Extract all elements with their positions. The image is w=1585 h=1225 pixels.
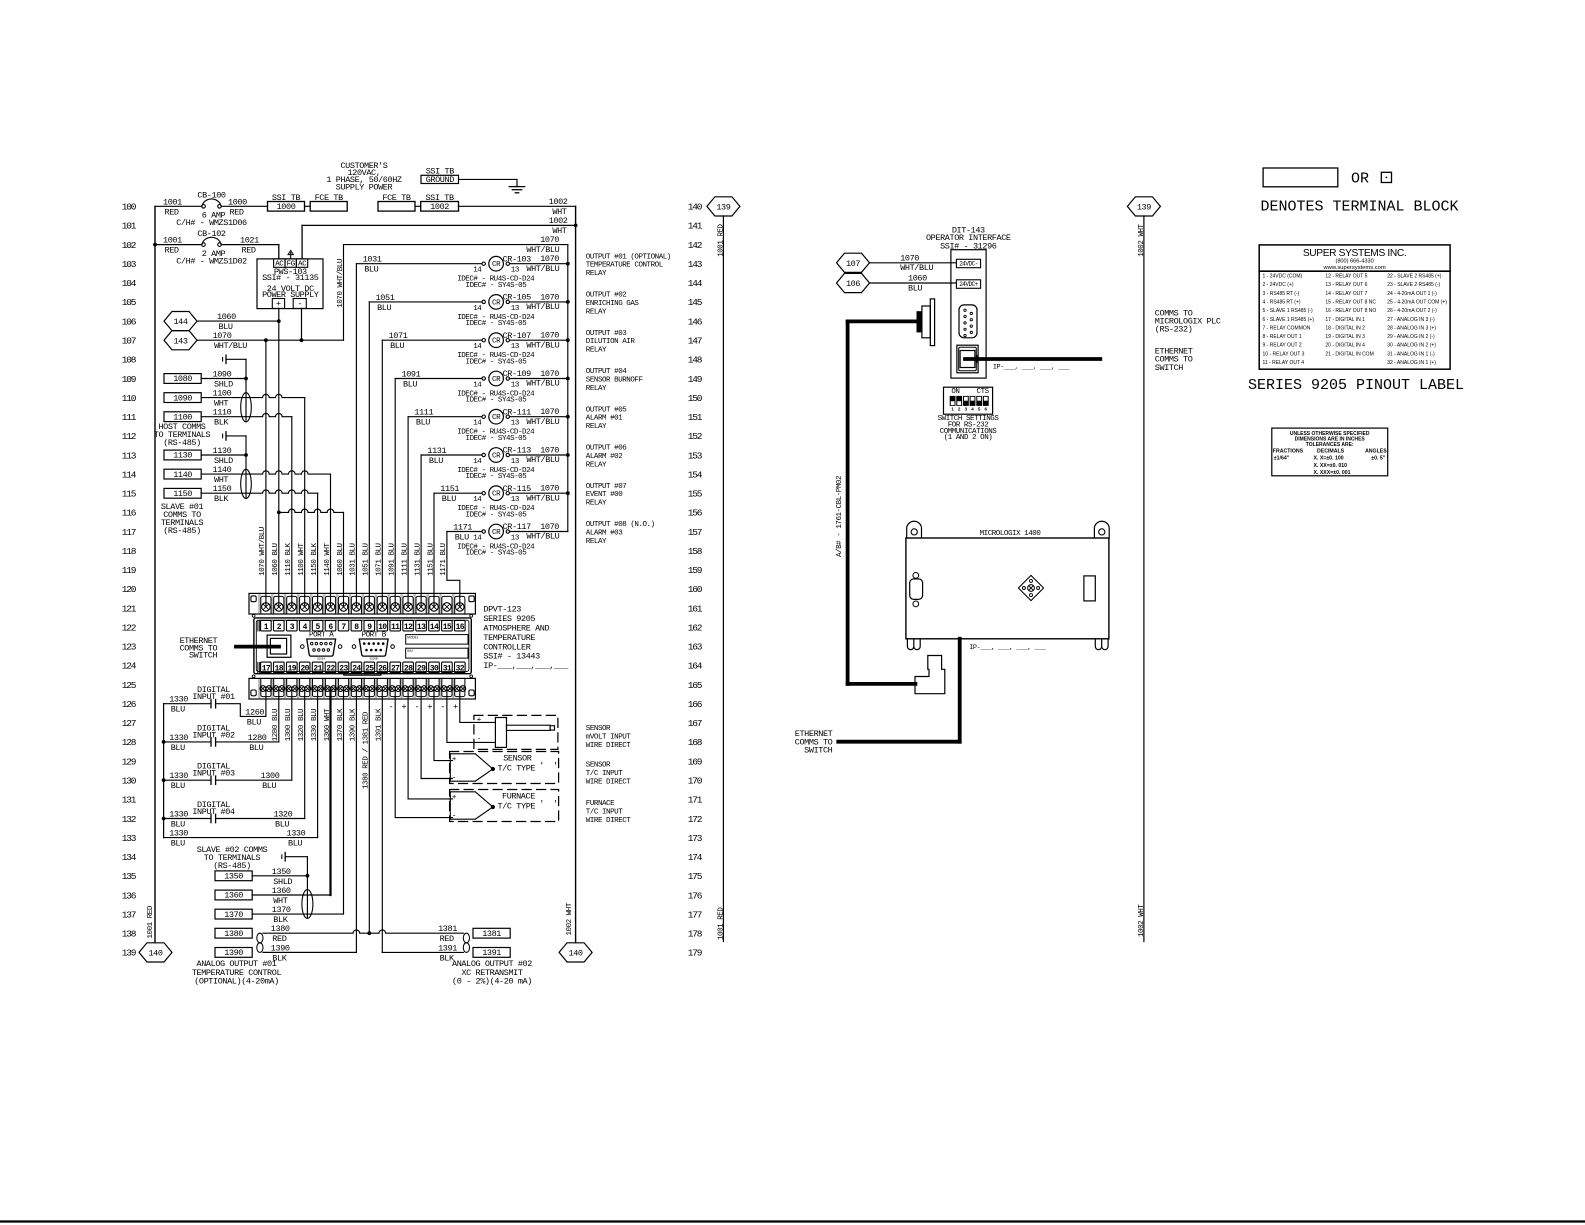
terminal 1150 box bbox=[164, 488, 201, 498]
svg-text:IP-___, ___, ___, ___: IP-___, ___, ___, ___ bbox=[993, 363, 1071, 371]
svg-text:1330 BLU: 1330 BLU bbox=[311, 709, 319, 741]
svg-text:CR: CR bbox=[492, 261, 501, 269]
svg-text:13: 13 bbox=[511, 535, 520, 543]
svg-text:149: 149 bbox=[688, 374, 703, 385]
svg-text:(1 AND 2 ON): (1 AND 2 ON) bbox=[944, 434, 993, 442]
svg-text:1300: 1300 bbox=[261, 771, 280, 781]
svg-text:1070: 1070 bbox=[540, 407, 559, 417]
ethernet comms wire into controller bbox=[236, 645, 279, 649]
wire drop to terminal 13 bbox=[420, 455, 422, 607]
svg-text:EVENT #00: EVENT #00 bbox=[586, 491, 623, 499]
node tag 106 bbox=[837, 273, 870, 292]
svg-text:178: 178 bbox=[688, 929, 703, 940]
svg-text:DILUTION AIR: DILUTION AIR bbox=[586, 338, 636, 346]
svg-text:IDEC# - SY4S-05: IDEC# - SY4S-05 bbox=[466, 397, 528, 405]
svg-text:WHT/BLU: WHT/BLU bbox=[526, 264, 559, 274]
svg-text:28 - ANALOG IN 3 (+): 28 - ANALOG IN 3 (+) bbox=[1387, 325, 1436, 331]
svg-text:166: 166 bbox=[688, 699, 703, 710]
wire drop to terminal 14 bbox=[433, 493, 435, 607]
left power rail 1001 RED bbox=[154, 206, 156, 942]
svg-text:27: 27 bbox=[391, 665, 400, 674]
svg-text:1111 BLU: 1111 BLU bbox=[401, 543, 409, 575]
svg-text:18 - DIGITAL IN 2: 18 - DIGITAL IN 2 bbox=[1325, 325, 1365, 331]
svg-text:1320: 1320 bbox=[274, 810, 293, 820]
svg-text:1060: 1060 bbox=[217, 312, 236, 322]
svg-text:22 - SLAVE 2 RS485 (+): 22 - SLAVE 2 RS485 (+) bbox=[1387, 274, 1442, 280]
svg-text:SWITCH: SWITCH bbox=[1155, 363, 1184, 373]
svg-text:12: 12 bbox=[404, 623, 413, 632]
svg-text:CR-107: CR-107 bbox=[503, 331, 532, 341]
svg-text:14: 14 bbox=[473, 420, 482, 428]
svg-text:': ' bbox=[539, 761, 544, 771]
svg-text:-: - bbox=[414, 702, 419, 712]
svg-text:1070: 1070 bbox=[540, 445, 559, 455]
wire terminal 30 to sensor tc + bbox=[434, 689, 452, 761]
svg-text:INPUT #02: INPUT #02 bbox=[192, 730, 235, 740]
terminal 1350 box bbox=[215, 871, 252, 881]
svg-text:1150 BLK: 1150 BLK bbox=[311, 542, 319, 575]
svg-text:21 - DIGITAL IN COM: 21 - DIGITAL IN COM bbox=[1325, 351, 1373, 357]
svg-text:150: 150 bbox=[688, 393, 703, 404]
svg-text:22: 22 bbox=[326, 665, 335, 674]
svg-text:1070 WHT/BLU: 1070 WHT/BLU bbox=[337, 259, 345, 308]
svg-text:132: 132 bbox=[122, 814, 137, 825]
svg-text:133: 133 bbox=[122, 833, 137, 844]
svg-text:1001 RED: 1001 RED bbox=[147, 905, 155, 938]
right power rail 1002 WHT bbox=[575, 206, 577, 942]
svg-text:T/C TYPE: T/C TYPE bbox=[498, 802, 536, 812]
terminal 1391 box bbox=[473, 948, 510, 958]
svg-text:13: 13 bbox=[511, 382, 520, 390]
svg-text:1091 BLU: 1091 BLU bbox=[389, 543, 397, 575]
svg-text:107: 107 bbox=[846, 259, 860, 269]
svg-text:+: + bbox=[276, 299, 281, 309]
svg-text:1002 WHT: 1002 WHT bbox=[1138, 223, 1146, 256]
svg-text:11 - RELAY OUT 4: 11 - RELAY OUT 4 bbox=[1263, 360, 1305, 366]
svg-text:(RS-485): (RS-485) bbox=[163, 438, 201, 448]
wire 1140 WHT to terminal 6 bbox=[201, 471, 330, 474]
svg-text:RELAY: RELAY bbox=[586, 423, 607, 431]
svg-text:1171: 1171 bbox=[453, 523, 472, 533]
svg-text:129: 129 bbox=[122, 756, 137, 767]
svg-text:OUTPUT #04: OUTPUT #04 bbox=[586, 368, 627, 376]
svg-text:BLU: BLU bbox=[262, 781, 276, 791]
svg-text:1390: 1390 bbox=[224, 948, 243, 958]
svg-text:14: 14 bbox=[473, 535, 482, 543]
wire 1021 RED bbox=[221, 244, 278, 246]
svg-text:': ' bbox=[539, 799, 544, 809]
svg-text:141: 141 bbox=[688, 221, 703, 232]
svg-text:OUTPUT #07: OUTPUT #07 bbox=[586, 483, 627, 491]
svg-text:20: 20 bbox=[300, 665, 309, 674]
OI RJ45 ethernet jack bbox=[957, 345, 978, 373]
svg-text:170: 170 bbox=[688, 776, 703, 787]
svg-text:101: 101 bbox=[122, 221, 137, 232]
svg-text:1391: 1391 bbox=[482, 948, 501, 958]
svg-text:SENSOR: SENSOR bbox=[586, 762, 611, 770]
svg-text:10: 10 bbox=[378, 623, 387, 632]
svg-text:29 - ANALOG IN 2 (-): 29 - ANALOG IN 2 (-) bbox=[1387, 334, 1435, 340]
cable ellipse slave 2 bbox=[302, 890, 313, 919]
controller 9205 main body bbox=[254, 618, 471, 674]
sensor mV probe (dashed enclosure) bbox=[474, 715, 558, 749]
svg-text:OUTPUT #02: OUTPUT #02 bbox=[586, 292, 627, 300]
svg-text:-: - bbox=[440, 702, 445, 712]
wire 1381 RED from terminal 25 junction bbox=[369, 930, 463, 933]
svg-text:OUTPUT #06: OUTPUT #06 bbox=[586, 445, 627, 453]
svg-text:CR-105: CR-105 bbox=[503, 293, 532, 303]
svg-text:156: 156 bbox=[688, 508, 703, 519]
svg-text:1001 RED: 1001 RED bbox=[718, 223, 726, 256]
wire PWS - to 1070 node bbox=[301, 308, 303, 340]
svg-text:1100: 1100 bbox=[173, 412, 192, 422]
svg-text:116: 116 bbox=[122, 508, 137, 519]
terminal 1090 box bbox=[164, 393, 201, 403]
wire 1391 BLK to terminal 26 bbox=[263, 951, 356, 953]
1070 WHT/BLU relay feed line bbox=[344, 244, 568, 246]
svg-text:30: 30 bbox=[430, 665, 439, 674]
svg-text:6: 6 bbox=[985, 407, 988, 412]
wire 1090 SHLD bbox=[201, 378, 246, 380]
svg-text:146: 146 bbox=[688, 316, 703, 327]
svg-text:T/C TYPE: T/C TYPE bbox=[498, 763, 536, 773]
relay coil CR-109 rung bbox=[395, 378, 482, 380]
wire 1070 down to terminal 1 bbox=[265, 340, 267, 607]
svg-text:12 - RELAY OUT 5: 12 - RELAY OUT 5 bbox=[1325, 274, 1367, 280]
terminal number row 17-32 bbox=[257, 662, 259, 672]
svg-text:1002 WHT: 1002 WHT bbox=[566, 902, 574, 935]
svg-text:164: 164 bbox=[688, 661, 703, 672]
svg-text:BLU: BLU bbox=[249, 743, 263, 753]
svg-text:167: 167 bbox=[688, 718, 702, 729]
svg-text:BLU: BLU bbox=[247, 717, 261, 727]
svg-text:OUTPUT #08 (N.O.): OUTPUT #08 (N.O.) bbox=[586, 521, 655, 529]
svg-text:BLU: BLU bbox=[416, 418, 430, 428]
svg-text:152: 152 bbox=[688, 431, 703, 442]
svg-text:140: 140 bbox=[569, 949, 583, 959]
svg-text:2: 2 bbox=[958, 407, 961, 412]
svg-text:151: 151 bbox=[688, 412, 703, 423]
svg-text:24VDC-: 24VDC- bbox=[959, 260, 978, 267]
svg-text:1001 RED: 1001 RED bbox=[718, 907, 726, 940]
svg-text:BLU: BLU bbox=[908, 283, 922, 293]
svg-text:117: 117 bbox=[122, 527, 136, 538]
svg-text:162: 162 bbox=[688, 623, 703, 634]
svg-text:24VDC+: 24VDC+ bbox=[959, 281, 979, 288]
wire 1380 RED to terminal 25 bbox=[263, 930, 369, 933]
svg-text:WHT/BLU: WHT/BLU bbox=[526, 455, 559, 465]
svg-text:1110 BLK: 1110 BLK bbox=[285, 542, 293, 575]
svg-text:-: - bbox=[389, 702, 394, 712]
terminal 1080 box bbox=[164, 374, 201, 384]
svg-text:1380: 1380 bbox=[224, 929, 243, 939]
svg-text:IDEC# - SY4S-05: IDEC# - SY4S-05 bbox=[466, 358, 528, 366]
cable ellipse host comms bbox=[241, 393, 252, 422]
svg-text:1071: 1071 bbox=[389, 331, 408, 341]
svg-text:143: 143 bbox=[688, 259, 703, 270]
svg-text:26: 26 bbox=[378, 665, 387, 674]
svg-text:ALARM #01: ALARM #01 bbox=[586, 415, 623, 423]
svg-text:CR-103: CR-103 bbox=[503, 254, 532, 264]
svg-text:IDEC# - SY4S-05: IDEC# - SY4S-05 bbox=[466, 550, 528, 558]
svg-text:114: 114 bbox=[122, 469, 137, 480]
svg-text:1171 BLU: 1171 BLU bbox=[440, 543, 448, 575]
PLC feet bbox=[907, 639, 920, 650]
svg-text:176: 176 bbox=[688, 890, 703, 901]
svg-text:1280 BLU: 1280 BLU bbox=[272, 709, 280, 741]
svg-text:IP-___,___,___,___: IP-___,___,___,___ bbox=[483, 661, 569, 671]
wire 1060 BLU row 106 bbox=[197, 320, 279, 322]
svg-text:158: 158 bbox=[688, 546, 703, 557]
svg-text:145: 145 bbox=[688, 297, 703, 308]
svg-text:1002: 1002 bbox=[549, 216, 568, 226]
svg-text:SENSOR BURNOFF: SENSOR BURNOFF bbox=[586, 377, 643, 385]
svg-text:7 - RELAY COMMON: 7 - RELAY COMMON bbox=[1263, 325, 1311, 331]
svg-text:122: 122 bbox=[122, 623, 137, 634]
svg-text:100: 100 bbox=[122, 202, 137, 213]
terminal 1380 box bbox=[215, 928, 252, 938]
svg-text:WHT/BLU: WHT/BLU bbox=[526, 493, 559, 503]
svg-text:32: 32 bbox=[456, 665, 465, 674]
svg-text:1370: 1370 bbox=[224, 910, 243, 920]
wire 1330 BLU to terminal 21 bbox=[164, 837, 318, 839]
svg-text:RELAY: RELAY bbox=[586, 500, 607, 508]
svg-text:14: 14 bbox=[473, 267, 482, 275]
1060 jumper row 116 to terminal 7 bbox=[277, 511, 281, 515]
svg-text:BLU: BLU bbox=[171, 781, 185, 791]
cable ellipse slave comms bbox=[241, 469, 252, 498]
svg-text:INPUT #01: INPUT #01 bbox=[192, 692, 235, 702]
RS-232 plug into OI bbox=[917, 311, 922, 332]
svg-text:S/N: S/N bbox=[407, 649, 413, 653]
svg-text:SENSOR: SENSOR bbox=[586, 725, 611, 733]
terminal number row 1-16 bbox=[257, 621, 259, 631]
svg-text:1051: 1051 bbox=[376, 293, 395, 303]
svg-text:(OPTIONAL)(4-20mA): (OPTIONAL)(4-20mA) bbox=[194, 977, 279, 987]
svg-text:MODEL: MODEL bbox=[407, 636, 419, 640]
svg-text:BLU: BLU bbox=[171, 705, 185, 715]
svg-text:CR: CR bbox=[492, 491, 501, 499]
svg-text:BLU: BLU bbox=[429, 456, 443, 466]
svg-text:WHT/BLU: WHT/BLU bbox=[526, 340, 559, 350]
svg-text:DENOTES TERMINAL BLOCK: DENOTES TERMINAL BLOCK bbox=[1261, 198, 1459, 215]
svg-text:BLU: BLU bbox=[442, 494, 456, 504]
svg-text:106: 106 bbox=[846, 279, 860, 289]
wire terminal 32 to probe + bbox=[460, 689, 496, 723]
svg-text:15 - RELAY OUT 8 NC: 15 - RELAY OUT 8 NC bbox=[1325, 300, 1376, 306]
svg-text:1110: 1110 bbox=[213, 408, 232, 418]
svg-text:1: 1 bbox=[951, 407, 954, 412]
shield drain symbol row 134 bbox=[281, 855, 283, 859]
node tag 139 bbox=[707, 197, 740, 216]
wire terminal 31 to probe - bbox=[447, 689, 496, 743]
svg-text:104: 104 bbox=[122, 278, 137, 289]
svg-text:139: 139 bbox=[1137, 203, 1151, 213]
svg-text:6 - SLAVE 1 RS485 (+): 6 - SLAVE 1 RS485 (+) bbox=[1263, 317, 1315, 323]
wire 1070 WHT/BLU row 107 bbox=[197, 339, 344, 341]
svg-text:31 - ANALOG IN 1 (-): 31 - ANALOG IN 1 (-) bbox=[1387, 351, 1435, 357]
svg-text:125: 125 bbox=[122, 680, 137, 691]
svg-text:MICROLOGIX 1400: MICROLOGIX 1400 bbox=[980, 530, 1042, 538]
wire 1002 WHT row 101 (from PWS AC) bbox=[302, 224, 575, 226]
svg-text:1070 WHT/BLU: 1070 WHT/BLU bbox=[259, 527, 267, 576]
svg-text:143: 143 bbox=[173, 336, 187, 346]
svg-text:X. XX=±0. 010: X. XX=±0. 010 bbox=[1314, 463, 1348, 469]
svg-text:1060: 1060 bbox=[908, 274, 927, 284]
svg-text:3: 3 bbox=[965, 407, 968, 412]
svg-text:RELAY: RELAY bbox=[586, 461, 607, 469]
svg-text:110: 110 bbox=[122, 393, 137, 404]
svg-text:SUPPLY POWER: SUPPLY POWER bbox=[336, 182, 393, 192]
svg-text:10 - RELAY OUT 3: 10 - RELAY OUT 3 bbox=[1263, 351, 1305, 357]
svg-text:1021: 1021 bbox=[240, 236, 259, 246]
controller 9205 top terminal strip bbox=[249, 593, 475, 614]
svg-text:BLU: BLU bbox=[377, 303, 391, 313]
terminal 1140 box bbox=[164, 469, 201, 479]
node tag 140 bbox=[139, 943, 172, 962]
svg-text:TOLERANCES ARE:: TOLERANCES ARE: bbox=[1306, 442, 1354, 448]
svg-text:24: 24 bbox=[352, 665, 361, 674]
svg-text:1070: 1070 bbox=[540, 522, 559, 532]
svg-text:118: 118 bbox=[122, 546, 137, 557]
wire drop to terminal 11 bbox=[394, 379, 396, 607]
svg-text:1100 WHT: 1100 WHT bbox=[298, 542, 306, 575]
relay coil CR-105 rung bbox=[369, 301, 482, 303]
svg-text:121: 121 bbox=[122, 603, 137, 614]
svg-text:165: 165 bbox=[688, 680, 703, 691]
svg-text:17: 17 bbox=[262, 665, 271, 674]
svg-text:BLK: BLK bbox=[214, 494, 229, 504]
PLC DB9 bbox=[910, 579, 923, 600]
svg-text:127: 127 bbox=[122, 718, 136, 729]
svg-text:FURNACE: FURNACE bbox=[502, 792, 535, 802]
svg-text:15: 15 bbox=[443, 623, 452, 632]
svg-text:1151: 1151 bbox=[440, 484, 459, 494]
svg-text:138: 138 bbox=[122, 929, 137, 940]
svg-text:1280: 1280 bbox=[248, 733, 267, 743]
svg-text:GROUND: GROUND bbox=[426, 175, 455, 185]
svg-text:CR: CR bbox=[492, 414, 501, 422]
svg-text:POWER SUPPLY: POWER SUPPLY bbox=[262, 290, 319, 300]
svg-text:4: 4 bbox=[971, 407, 974, 412]
terminal 1390 box bbox=[215, 948, 252, 958]
right-angle RS232 connector at PLC bbox=[915, 656, 945, 694]
svg-text:135: 135 bbox=[122, 871, 137, 882]
PLC ethernet cable down/left bbox=[958, 639, 962, 742]
svg-text:14: 14 bbox=[430, 623, 439, 632]
svg-text:123: 123 bbox=[122, 642, 137, 653]
svg-text:SERIES 9205 PINOUT LABEL: SERIES 9205 PINOUT LABEL bbox=[1248, 377, 1464, 394]
svg-text:BLU: BLU bbox=[171, 743, 185, 753]
svg-text:1091: 1091 bbox=[402, 370, 421, 380]
svg-text:1071 BLU: 1071 BLU bbox=[376, 543, 384, 575]
wire 1001 RED row 102 bbox=[153, 243, 157, 247]
svg-text:CR-109: CR-109 bbox=[503, 369, 532, 379]
relay coil CR-103 rung bbox=[356, 263, 482, 265]
svg-text:130: 130 bbox=[122, 776, 137, 787]
wire drop to terminal 8 bbox=[355, 264, 357, 607]
svg-text:BLU: BLU bbox=[403, 380, 417, 390]
svg-text:(0 - 2%)(4-20 mA): (0 - 2%)(4-20 mA) bbox=[452, 977, 532, 987]
node tag 143 bbox=[164, 331, 197, 350]
svg-text:+: + bbox=[401, 702, 406, 712]
svg-text:BLU: BLU bbox=[364, 265, 378, 275]
wire terminal 29 to sensor tc - bbox=[421, 689, 452, 779]
svg-text:106: 106 bbox=[122, 316, 137, 327]
svg-text:1131 BLU: 1131 BLU bbox=[414, 543, 422, 575]
svg-text:174: 174 bbox=[688, 852, 703, 863]
wire drop to terminal 12 bbox=[407, 417, 409, 607]
svg-text:26 - 4-20mA OUT 2 (-): 26 - 4-20mA OUT 2 (-) bbox=[1387, 308, 1437, 314]
svg-text:1002 WHT: 1002 WHT bbox=[1138, 904, 1146, 937]
svg-text:14: 14 bbox=[473, 305, 482, 313]
wire drop to terminal 9 bbox=[368, 302, 370, 607]
wire PWS + to 1060 node bbox=[278, 308, 280, 321]
svg-text:171: 171 bbox=[688, 795, 703, 806]
svg-text:-: - bbox=[452, 813, 456, 821]
svg-text:14: 14 bbox=[473, 458, 482, 466]
svg-text:27 - ANALOG IN 3 (-): 27 - ANALOG IN 3 (-) bbox=[1387, 317, 1435, 323]
svg-text:1000: 1000 bbox=[277, 202, 296, 212]
svg-text:1381: 1381 bbox=[438, 924, 457, 934]
svg-text:A/B# - 1761-CBL-PM02: A/B# - 1761-CBL-PM02 bbox=[836, 476, 844, 557]
svg-text:WHT/BLU: WHT/BLU bbox=[526, 302, 559, 312]
svg-text:ANGLES: ANGLES bbox=[1365, 448, 1387, 454]
PLC key diamond bbox=[1018, 575, 1043, 600]
node tag 139 bbox=[1127, 197, 1160, 216]
svg-text:14: 14 bbox=[473, 496, 482, 504]
svg-text:136: 136 bbox=[122, 890, 137, 901]
svg-text:1051 BLU: 1051 BLU bbox=[363, 543, 371, 575]
svg-text:160: 160 bbox=[688, 584, 703, 595]
svg-text:WIRE DIRECT: WIRE DIRECT bbox=[586, 778, 632, 786]
svg-text:1391: 1391 bbox=[438, 943, 457, 953]
terminal 1360 box / wire to terminal 22 bbox=[215, 890, 252, 900]
wire 1280 BLU to terminal 18 bbox=[216, 741, 279, 743]
node tag 140 bbox=[559, 943, 592, 962]
svg-text:1111: 1111 bbox=[414, 408, 433, 418]
svg-text:161: 161 bbox=[688, 603, 703, 614]
svg-text:126: 126 bbox=[122, 699, 137, 710]
svg-text:CR-113: CR-113 bbox=[503, 446, 532, 456]
wire 1390 BLK to terminal 24 bbox=[263, 951, 356, 953]
svg-text:137: 137 bbox=[122, 909, 136, 920]
svg-text:1330: 1330 bbox=[169, 829, 188, 839]
svg-text:21: 21 bbox=[313, 665, 322, 674]
svg-text:13: 13 bbox=[511, 343, 520, 351]
SN box bbox=[406, 648, 468, 658]
svg-text:175: 175 bbox=[688, 871, 703, 882]
wire drop to terminal 10 bbox=[381, 340, 383, 607]
node tag 144 bbox=[164, 312, 197, 331]
svg-text:144: 144 bbox=[173, 317, 187, 327]
svg-text:19 - DIGITAL IN 3: 19 - DIGITAL IN 3 bbox=[1325, 334, 1365, 340]
FG ground arrow bbox=[290, 253, 292, 259]
svg-text:2 - 24VDC (+): 2 - 24VDC (+) bbox=[1263, 282, 1294, 288]
svg-text:RELAY: RELAY bbox=[586, 385, 607, 393]
svg-text:14 - RELAY OUT 7: 14 - RELAY OUT 7 bbox=[1325, 291, 1367, 297]
svg-text:1260: 1260 bbox=[245, 707, 264, 717]
svg-text:134: 134 bbox=[122, 852, 137, 863]
svg-text:WHT/BLU: WHT/BLU bbox=[900, 263, 933, 273]
svg-text:WHT/BLU: WHT/BLU bbox=[526, 417, 559, 427]
svg-text:13: 13 bbox=[511, 420, 520, 428]
svg-text:X. X=±0. 100: X. X=±0. 100 bbox=[1314, 456, 1344, 462]
svg-text:WHT/BLU: WHT/BLU bbox=[526, 379, 559, 389]
svg-text:CR: CR bbox=[492, 299, 501, 307]
svg-text:INPUT #04: INPUT #04 bbox=[192, 807, 235, 817]
svg-text:157: 157 bbox=[688, 527, 702, 538]
